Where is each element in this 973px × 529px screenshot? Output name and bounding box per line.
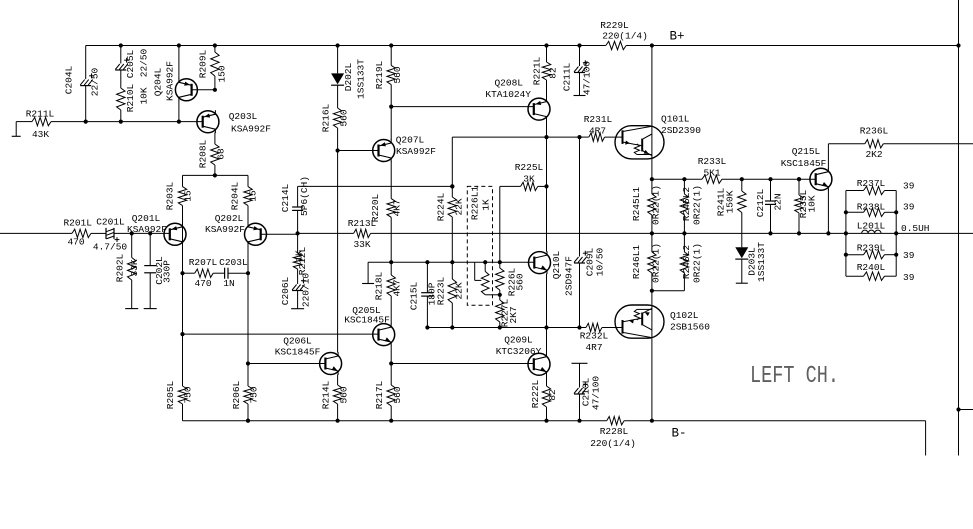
svg-text:3K: 3K — [523, 174, 535, 185]
svg-text:Q101L: Q101L — [661, 114, 690, 125]
resistor R206L — [231, 380, 260, 422]
svg-text:150: 150 — [217, 65, 228, 82]
svg-text:R246L2: R246L2 — [681, 245, 692, 280]
svg-text:KSC1845F: KSC1845F — [275, 347, 321, 358]
label LEFT CH. — [750, 363, 839, 390]
wire Q208L base wire — [391, 106, 534, 108]
resistor R245L1 — [631, 179, 662, 233]
resistor R235L — [795, 179, 818, 233]
resistor R225L — [500, 162, 549, 191]
svg-text:4.7/50: 4.7/50 — [93, 242, 128, 253]
resistor R201L — [63, 218, 92, 248]
resistor R218L — [374, 262, 403, 323]
svg-text:470: 470 — [67, 236, 84, 247]
wire Q215L emitter — [827, 189, 829, 233]
svg-text:B+: B+ — [669, 30, 684, 44]
capacitor C201L — [91, 217, 170, 253]
resistor R220L — [370, 161, 403, 262]
svg-text:560: 560 — [392, 66, 403, 83]
wire Q205L base wire — [183, 333, 379, 335]
capacitor C206L — [280, 269, 311, 309]
svg-text:750: 750 — [249, 386, 260, 403]
wire Q201L emitter column — [182, 223, 184, 245]
resistor R216L — [321, 103, 350, 152]
svg-text:D202L: D202L — [343, 62, 354, 91]
capacitor C210L — [572, 363, 602, 420]
wire ladder right rail — [894, 191, 898, 277]
svg-text:1SS133T: 1SS133T — [356, 59, 367, 99]
wire input — [0, 232, 72, 234]
wire Q202L collector column — [246, 245, 250, 386]
svg-text:22K: 22K — [454, 282, 465, 299]
svg-text:R228L: R228L — [600, 426, 629, 437]
svg-text:R202L: R202L — [115, 253, 126, 282]
svg-text:2K2: 2K2 — [865, 149, 882, 160]
transistor Q101L — [615, 46, 701, 182]
svg-text:C211L: C211L — [562, 62, 573, 91]
svg-text:R240L: R240L — [857, 262, 886, 273]
svg-text:0R22(1): 0R22(1) — [651, 185, 662, 225]
resistor R207L — [183, 257, 218, 289]
svg-text:R204L: R204L — [230, 181, 241, 210]
svg-text:0.5UH: 0.5UH — [901, 223, 930, 234]
transistor Q102L — [615, 291, 710, 421]
svg-text:220(1/4): 220(1/4) — [590, 438, 636, 449]
resistor R208L — [198, 133, 227, 178]
transistor Q210L — [529, 250, 575, 296]
svg-text:L201L: L201L — [857, 220, 886, 231]
svg-text:R201L: R201L — [63, 218, 92, 229]
wire ground stub row262 — [362, 262, 374, 283]
svg-text:KSA992F: KSA992F — [164, 61, 175, 101]
capacitor C202L — [144, 233, 173, 308]
svg-text:R210L: R210L — [125, 83, 136, 112]
wire C214L top — [298, 184, 455, 188]
resistor R212L — [293, 233, 308, 275]
svg-text:Q204L: Q204L — [153, 67, 164, 96]
svg-text:4R7: 4R7 — [589, 126, 606, 137]
wire junction row 262 — [368, 260, 534, 264]
resistor R223L — [436, 262, 465, 327]
svg-text:R236L: R236L — [860, 126, 889, 137]
svg-text:0R22(1): 0R22(1) — [651, 243, 662, 283]
resistor R240L — [846, 262, 915, 283]
svg-text:2SD2390: 2SD2390 — [661, 125, 701, 136]
svg-text:C215L: C215L — [409, 281, 420, 310]
diode D203L — [735, 233, 767, 283]
svg-text:82: 82 — [547, 389, 558, 401]
svg-text:KSC1845F: KSC1845F — [344, 315, 390, 326]
svg-text:R203L: R203L — [165, 181, 176, 210]
resistor R229L — [600, 20, 648, 50]
svg-text:220/10: 220/10 — [301, 273, 312, 308]
resistor R226L1 — [475, 262, 502, 297]
resistor R246L1 — [631, 233, 662, 292]
resistor R214L — [321, 375, 350, 421]
wire left lower rail — [51, 120, 203, 124]
svg-text:R233L: R233L — [698, 156, 727, 167]
wire bottom rail — [183, 419, 926, 456]
svg-text:1N: 1N — [223, 278, 234, 289]
wire row 327 — [425, 325, 586, 329]
svg-text:10K: 10K — [139, 87, 150, 104]
capacitor C211L — [562, 46, 593, 96]
svg-text:330P: 330P — [161, 260, 172, 283]
svg-text:R205L: R205L — [165, 380, 176, 409]
svg-text:2K7: 2K7 — [508, 306, 519, 323]
svg-text:33K: 33K — [129, 259, 140, 276]
transistor Q208L — [485, 78, 550, 121]
wire Q208L collector to rows — [546, 120, 548, 252]
transistor Q203L — [197, 110, 271, 134]
resistor R239L — [846, 243, 915, 262]
resistor R222L — [530, 375, 558, 421]
svg-text:47/100: 47/100 — [582, 61, 593, 96]
svg-text:R246L1: R246L1 — [631, 245, 642, 280]
capacitor C204L — [64, 46, 101, 122]
capacitor C209L — [574, 247, 606, 327]
wire right B+ vertical — [956, 0, 973, 456]
resistor R202L — [115, 233, 140, 308]
svg-text:KSA992F: KSA992F — [396, 146, 436, 157]
svg-text:39: 39 — [903, 181, 915, 192]
transistor Q206L — [275, 336, 342, 376]
svg-text:R214L: R214L — [321, 380, 332, 409]
wire Q210L emitter — [546, 274, 548, 328]
resistor R224L — [436, 186, 465, 262]
svg-text:10K: 10K — [807, 195, 818, 212]
svg-text:R238L: R238L — [857, 202, 886, 213]
svg-text:Q203L: Q203L — [229, 111, 258, 122]
svg-text:KSC1845F: KSC1845F — [781, 158, 827, 169]
svg-text:C205L: C205L — [125, 49, 136, 78]
svg-text:22N: 22N — [773, 193, 784, 210]
transistor Q204L — [153, 46, 217, 122]
svg-text:R223L: R223L — [436, 276, 447, 305]
svg-text:KSA992F: KSA992F — [205, 224, 245, 235]
wire B+ top rail — [86, 43, 961, 47]
svg-text:39: 39 — [903, 250, 915, 261]
wire D202L column lower — [337, 151, 339, 353]
svg-text:1K: 1K — [481, 199, 492, 211]
transistor Q201L — [127, 213, 186, 246]
svg-text:Q102L: Q102L — [670, 310, 699, 321]
svg-text:C201L: C201L — [96, 217, 125, 228]
svg-text:0R22(1): 0R22(1) — [692, 243, 703, 283]
wire Q207L base wire — [338, 150, 379, 152]
capacitor C203L — [213, 257, 250, 289]
svg-text:C204L: C204L — [64, 65, 75, 94]
resistor R210L — [117, 83, 150, 121]
svg-text:R219L: R219L — [374, 60, 385, 89]
wire Q205L emitter node — [389, 346, 393, 385]
svg-text:R229L: R229L — [600, 20, 629, 31]
transistor Q207L — [373, 107, 437, 162]
svg-text:220(1/4): 220(1/4) — [602, 31, 648, 42]
resistor R245L2 — [680, 179, 702, 233]
svg-text:4R7: 4R7 — [585, 342, 602, 353]
node B+ — [669, 30, 684, 44]
svg-text:C214L: C214L — [280, 183, 291, 212]
svg-text:R218L: R218L — [374, 271, 385, 300]
transistor Q215L — [781, 146, 832, 191]
svg-text:82: 82 — [548, 67, 559, 79]
svg-text:5K1: 5K1 — [703, 168, 720, 179]
resistor R221L — [532, 46, 559, 99]
svg-text:KSA992F: KSA992F — [231, 124, 271, 135]
svg-text:560: 560 — [339, 386, 350, 403]
svg-text:R211L: R211L — [26, 109, 55, 120]
svg-text:R222L: R222L — [530, 379, 541, 408]
resistor R228L — [590, 417, 636, 450]
svg-text:1SS133T: 1SS133T — [756, 242, 767, 282]
svg-text:39: 39 — [903, 272, 915, 283]
svg-text:Q206L: Q206L — [283, 336, 312, 347]
wire Q209L base wire — [391, 363, 534, 365]
resistor R203L — [165, 175, 194, 223]
resistor R213L — [348, 218, 377, 250]
svg-text:15: 15 — [183, 190, 194, 202]
svg-text:5P6(CH): 5P6(CH) — [299, 176, 310, 216]
resistor R217L — [374, 380, 403, 420]
wire ground-stub left of R211L — [12, 122, 32, 137]
capacitor C205L — [115, 46, 149, 89]
svg-text:C212L: C212L — [755, 188, 766, 217]
svg-text:2SD947F: 2SD947F — [564, 256, 575, 296]
capacitor C212L — [755, 179, 784, 233]
resistor R205L — [165, 334, 194, 421]
svg-text:560: 560 — [392, 386, 403, 403]
svg-text:22K: 22K — [454, 198, 465, 215]
inductor L201L — [857, 220, 930, 234]
resistor R231L — [580, 114, 623, 141]
svg-text:68: 68 — [216, 148, 227, 160]
wire Q208L collector row — [450, 135, 581, 188]
svg-text:R232L: R232L — [580, 331, 609, 342]
wire Q201L collector node — [180, 245, 184, 336]
transistor Q205L — [344, 305, 395, 346]
svg-text:150K: 150K — [725, 190, 736, 213]
svg-text:R245L2: R245L2 — [681, 187, 692, 222]
svg-text:R245L1: R245L1 — [631, 187, 642, 222]
svg-text:2SB1560: 2SB1560 — [670, 322, 710, 333]
svg-text:750: 750 — [183, 386, 194, 403]
svg-text:Q209L: Q209L — [504, 335, 533, 346]
resistor R241L — [716, 179, 747, 233]
svg-text:R217L: R217L — [374, 380, 385, 409]
transistor Q209L — [496, 328, 550, 376]
svg-text:R231L: R231L — [584, 114, 613, 125]
svg-text:R208L: R208L — [198, 139, 209, 168]
node B- — [671, 427, 686, 441]
svg-text:4K7: 4K7 — [392, 199, 403, 216]
svg-text:R221L: R221L — [532, 56, 543, 85]
svg-text:B-: B- — [671, 427, 686, 441]
resistor R204L — [230, 175, 259, 223]
wire ladder left rail — [844, 191, 848, 277]
svg-text:22/50: 22/50 — [139, 48, 150, 77]
svg-text:KTC3206Y: KTC3206Y — [496, 346, 542, 357]
resistor R246L2 — [652, 233, 703, 290]
wire mid rail — [298, 231, 973, 235]
svg-text:560: 560 — [339, 109, 350, 126]
svg-text:KSA992F: KSA992F — [127, 224, 167, 235]
svg-text:39: 39 — [903, 202, 915, 213]
svg-text:Q202L: Q202L — [215, 213, 244, 224]
svg-text:22/50: 22/50 — [90, 67, 101, 96]
capacitor C214L — [280, 176, 310, 233]
capacitor C215L — [409, 262, 438, 327]
svg-text:R207L: R207L — [189, 257, 218, 268]
resistor R236L — [860, 126, 973, 161]
svg-text:33K: 33K — [353, 239, 370, 250]
resistor R227L — [496, 295, 519, 328]
svg-text:R209L: R209L — [198, 49, 209, 78]
resistor R233L — [698, 156, 727, 183]
svg-text:C206L: C206L — [280, 276, 291, 305]
svg-text:C203L: C203L — [219, 257, 248, 268]
wire C209 column top — [579, 137, 581, 256]
transistor Q202L — [205, 213, 300, 246]
svg-text:Q208L: Q208L — [494, 78, 523, 89]
resistor R211L — [26, 109, 55, 141]
svg-text:Q210L: Q210L — [551, 250, 562, 279]
svg-text:Q207L: Q207L — [396, 135, 425, 146]
resistor R237L — [846, 178, 915, 195]
resistor R238L — [846, 202, 915, 217]
svg-text:43K: 43K — [32, 129, 49, 140]
svg-text:1K: 1K — [294, 250, 305, 262]
svg-text:47/100: 47/100 — [591, 376, 602, 411]
wire Q206L base wire — [248, 363, 325, 365]
svg-text:R216L: R216L — [321, 103, 332, 132]
wire R225L left column — [499, 186, 501, 262]
diode D202L — [331, 46, 366, 109]
svg-text:R239L: R239L — [857, 243, 886, 254]
wire R203-R204 top rail — [183, 174, 249, 176]
svg-text:R225L: R225L — [515, 162, 544, 173]
svg-text:Q215L: Q215L — [792, 146, 821, 157]
svg-text:KTA1024Y: KTA1024Y — [485, 89, 531, 100]
svg-text:R226L1: R226L1 — [470, 186, 481, 221]
svg-text:R237L: R237L — [857, 178, 886, 189]
svg-text:0R22(1): 0R22(1) — [692, 185, 703, 225]
svg-text:R224L: R224L — [436, 192, 447, 221]
resistor R226L — [496, 262, 526, 296]
wire Q215L collector — [828, 144, 864, 169]
wire row 179 — [652, 177, 816, 181]
svg-text:4K7: 4K7 — [392, 279, 403, 296]
svg-text:10/50: 10/50 — [595, 247, 606, 276]
svg-text:LEFT CH.: LEFT CH. — [750, 363, 839, 390]
svg-text:470: 470 — [194, 278, 211, 289]
svg-text:15: 15 — [248, 190, 259, 202]
resistor R226L1 dashed box — [467, 186, 492, 306]
resistor R209L — [198, 46, 228, 90]
resistor R232L — [580, 323, 623, 353]
resistor R219L — [374, 46, 403, 109]
svg-text:R220L: R220L — [370, 193, 381, 222]
svg-text:R206L: R206L — [231, 380, 242, 409]
svg-text:Q201L: Q201L — [132, 213, 161, 224]
svg-text:560: 560 — [515, 273, 526, 290]
